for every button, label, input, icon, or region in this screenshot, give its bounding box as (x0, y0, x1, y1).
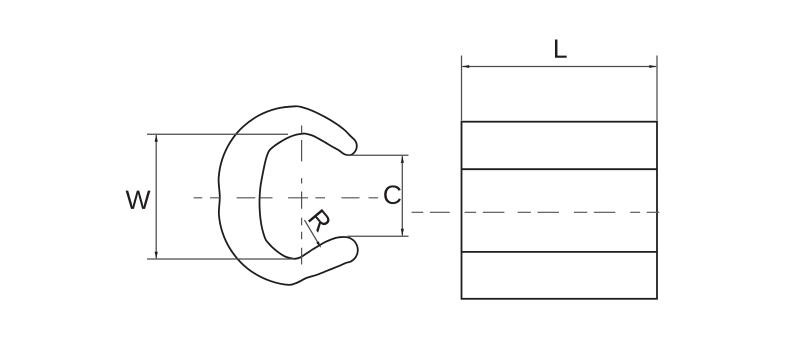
L left extension line (461, 56, 463, 121)
cylinder axis centerline (412, 211, 660, 213)
C top extension line (347, 154, 409, 156)
label L (555, 39, 567, 57)
lower edge line of side view (462, 251, 658, 253)
R leader line (305, 220, 320, 246)
W dimension line (155, 135, 157, 258)
W bottom extension line (147, 258, 294, 260)
W top extension line (147, 133, 288, 135)
upper edge line of side view (462, 168, 658, 170)
label C (384, 185, 401, 204)
label R (rotated) (308, 209, 332, 233)
label W (126, 191, 151, 209)
horizontal centerline of C view (194, 197, 379, 199)
vertical centerline of C view (301, 126, 303, 265)
L dimension line (462, 66, 656, 68)
L right extension line (656, 56, 658, 121)
C-sleeve cross-section outline (219, 106, 358, 285)
C dimension line (401, 156, 403, 236)
sleeve side view outline (462, 122, 658, 299)
C bottom extension line (348, 235, 409, 237)
